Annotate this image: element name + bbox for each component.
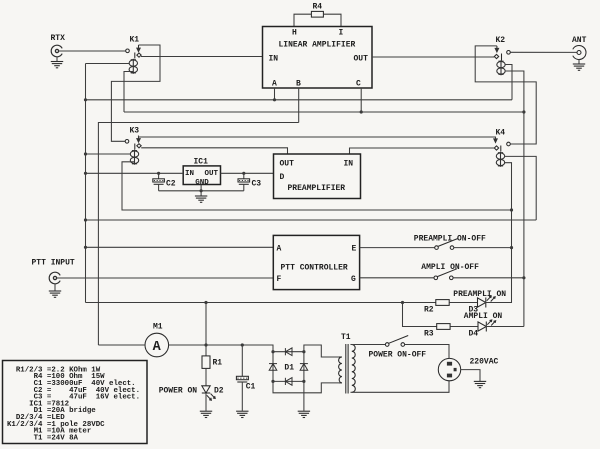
connector PTT INPUT [32, 259, 75, 284]
junction bridge BR [302, 380, 305, 383]
svg-text:D: D [280, 173, 285, 182]
ground D2 [200, 411, 212, 417]
wire K2 coil bottom to G net [505, 71, 524, 327]
relay K3 coil [130, 150, 138, 165]
wire plug to ground [461, 370, 480, 381]
junction C3 tap [242, 172, 245, 175]
svg-text:E: E [352, 245, 357, 254]
capacitor C2 [153, 173, 176, 191]
wire bus vertical [85, 64, 87, 303]
wire meter right to bridge [169, 345, 273, 352]
junction bus K3coil [84, 152, 87, 155]
switch AMPLI ON-OFF [434, 269, 457, 280]
resistor R3 [437, 324, 450, 330]
junction A line1 [273, 98, 276, 101]
wire K1 NC loop to K3 common [111, 45, 160, 141]
switch POWER ON-OFF [385, 336, 408, 347]
wire ANT stub [578, 59, 580, 63]
wire E pin to switch [360, 247, 435, 249]
svg-text:PTT INPUT: PTT INPUT [32, 259, 75, 268]
junction E-net line210 [510, 208, 513, 211]
switch PREAMPLI ON-OFF [435, 239, 458, 250]
wire pin B drop [298, 88, 300, 123]
ground IC1 [195, 196, 207, 202]
wire K1 NO to amplifier IN [141, 56, 263, 58]
wire K1 coil bottom [124, 72, 133, 113]
junction C2 tap [157, 172, 160, 175]
bridge D1 left diode [269, 364, 277, 371]
svg-text:D4: D4 [469, 330, 479, 339]
svg-text:IN: IN [269, 55, 279, 64]
relay K1 contact [126, 45, 142, 59]
wire K4 coil top to supply line [504, 156, 536, 220]
junction R3 branch [401, 301, 404, 304]
wire switch to G net [453, 277, 524, 279]
svg-text:PREAMPLI ON: PREAMPLI ON [453, 290, 506, 299]
svg-text:RTX: RTX [51, 34, 66, 43]
svg-text:R4: R4 [313, 3, 323, 12]
junction C line2 [360, 110, 363, 113]
svg-text:POWER ON-OFF: POWER ON-OFF [369, 351, 427, 360]
junction bridge BL [271, 380, 274, 383]
bridge D1 right wire [303, 352, 305, 382]
svg-text:F: F [277, 275, 282, 284]
svg-text:D2: D2 [214, 387, 224, 396]
wire T1 primary top to switch [352, 344, 386, 346]
svg-text:220VAC: 220VAC [470, 358, 499, 367]
wire K3 NO to preamp OUT [141, 148, 287, 154]
svg-text:PTT CONTROLLER: PTT CONTROLLER [281, 264, 348, 273]
svg-text:T1 =24V 8A: T1 =24V 8A [7, 434, 79, 442]
bridge D1 left wire [272, 352, 274, 382]
svg-text:D1: D1 [284, 364, 294, 373]
svg-text:B: B [296, 80, 301, 89]
parts list box [3, 361, 148, 444]
relay K2 contact [494, 46, 510, 61]
ground 220VAC [474, 381, 486, 387]
svg-text:AMPLI ON: AMPLI ON [464, 312, 503, 321]
wire bridge AC bottom to T1 [273, 381, 339, 392]
svg-text:GND: GND [195, 179, 209, 187]
resistor R4 [311, 11, 323, 17]
wire supply to K4 line [86, 219, 537, 221]
svg-text:R1: R1 [213, 359, 223, 368]
svg-text:PREAMPLIFIER: PREAMPLIFIER [288, 184, 346, 193]
svg-text:OUT: OUT [354, 55, 369, 64]
block PREAMPLIFIER [274, 154, 361, 199]
wire line2 G-drive [124, 111, 524, 113]
junction line2 G net [522, 110, 525, 113]
junction bus A [84, 246, 87, 249]
wire D4 to G net [485, 326, 524, 328]
wire PTT stub [54, 284, 56, 291]
wire R4 to I [323, 14, 341, 26]
junction E net switch [510, 246, 513, 249]
wire T1 primary bottom to plug [352, 381, 449, 393]
LED D4 [478, 320, 496, 332]
wire switch to E net [454, 247, 512, 249]
wire meter left [98, 344, 145, 346]
svg-text:LINEAR AMPLIFIER: LINEAR AMPLIFIER [279, 41, 356, 50]
svg-text:C: C [356, 80, 361, 89]
relay K2 coil [497, 60, 505, 75]
bridge D1 bottom diode [285, 378, 292, 386]
relay K3 contact [125, 136, 141, 150]
svg-text:ANT: ANT [572, 36, 587, 45]
wire K2 common to ANT [510, 51, 577, 53]
wire K2 coil top to line1 [505, 65, 512, 100]
svg-text:M1: M1 [153, 323, 163, 332]
capacitor C1 [236, 345, 255, 411]
resistor R2 [436, 300, 449, 306]
wire K2 common loop to K4 common [475, 46, 536, 144]
svg-text:IN: IN [185, 170, 194, 178]
ground PTT [49, 291, 61, 297]
wire H to R4 [294, 14, 311, 26]
svg-text:T1: T1 [341, 333, 351, 342]
wire line3 B to meter [98, 123, 298, 346]
svg-text:A: A [277, 245, 282, 254]
wire R1 column upper [205, 303, 207, 356]
wire G pin to switch [360, 277, 434, 279]
wire RTX stub [56, 57, 58, 62]
junction R1 top [204, 301, 207, 304]
wire preamp IN to K4 NO [350, 148, 495, 154]
wire bus down to rail [86, 302, 210, 304]
svg-text:A: A [272, 80, 277, 89]
svg-text:OUT: OUT [205, 170, 219, 178]
wire switch to plug [405, 345, 449, 359]
svg-text:K4: K4 [496, 129, 506, 138]
transformer T1 [339, 344, 356, 394]
wire bridge to ground [303, 381, 305, 410]
svg-text:OUT: OUT [280, 160, 295, 169]
wire R3 branch [403, 303, 437, 327]
ground ANT [573, 64, 585, 70]
wire supply bus 302 [86, 302, 436, 304]
relay K4 coil [496, 152, 504, 167]
svg-text:A: A [153, 340, 162, 355]
wire R2 to D3 [449, 302, 477, 304]
junction gnd link [200, 189, 203, 192]
svg-text:H: H [292, 29, 297, 38]
ground C1 [236, 411, 248, 417]
connector RTX [51, 34, 66, 57]
wire D3 to E net [485, 302, 512, 304]
wire pin C drop [360, 88, 362, 112]
svg-text:C2: C2 [166, 180, 176, 189]
wire pin A drop [274, 88, 276, 100]
junction bus line1 [84, 98, 87, 101]
wire RTX to K1 common [59, 50, 126, 52]
wire IC1 OUT to preamp D [221, 172, 274, 174]
bridge D1 bottom wire [273, 380, 304, 382]
wire R3 to D4 [450, 326, 478, 328]
wire amplifier OUT to K2 NO [372, 56, 494, 58]
wire PTT to F pin [57, 277, 273, 279]
svg-text:IC1: IC1 [194, 158, 209, 167]
svg-text:C1: C1 [246, 383, 256, 392]
wire K3 coil left to bus [86, 153, 132, 155]
wire C2 C3 ground link [159, 190, 244, 192]
svg-text:K1: K1 [130, 36, 140, 45]
wire IC1 GND stub [200, 185, 202, 196]
meter M1 [145, 333, 169, 357]
resistor R1 [202, 356, 210, 369]
junction R1 rail [204, 343, 207, 346]
wire K4 coil bottom to E net [504, 163, 511, 303]
connector ANT [572, 36, 587, 59]
LED D2 [202, 386, 215, 400]
ground bridge [298, 411, 310, 417]
svg-text:POWER ON: POWER ON [159, 387, 198, 396]
wire bridge AC top to T1 [304, 345, 339, 357]
relay K4 contact [493, 138, 510, 151]
svg-text:R3: R3 [424, 330, 434, 339]
regulator IC1 [183, 166, 220, 187]
svg-text:IN: IN [344, 160, 354, 169]
bridge D1 top wire [273, 351, 304, 353]
block PTT CONTROLLER [273, 235, 359, 289]
op-amp block U1 LINEAR AMPLIFIER [263, 27, 373, 89]
svg-text:R2: R2 [424, 306, 434, 315]
svg-text:AMPLI ON-OFF: AMPLI ON-OFF [421, 263, 479, 272]
svg-text:K2: K2 [496, 36, 506, 45]
bridge D1 top diode [285, 348, 292, 356]
wire bus to A pin [86, 246, 274, 248]
wire K1 coil left to bus [86, 63, 130, 65]
wire K3 coil bottom to E net [122, 162, 512, 210]
ground RTX [51, 62, 63, 68]
svg-text:G: G [351, 275, 356, 284]
bridge D1 right diode [300, 364, 308, 371]
junction C1 tap [241, 343, 244, 346]
svg-text:C3: C3 [252, 180, 262, 189]
junction bridge TL [271, 350, 274, 353]
wire R1 to D2 [205, 368, 207, 385]
relay K1 coil [129, 59, 137, 74]
wire D2 to ground [205, 393, 207, 411]
wire line1 bus [86, 99, 513, 101]
LED D3 [478, 296, 496, 308]
svg-text:K3: K3 [130, 127, 140, 136]
capacitor C3 [238, 173, 261, 191]
junction G net switch [522, 276, 525, 279]
plug 220VAC [438, 358, 460, 380]
junction bridge TR [302, 350, 305, 353]
junction bus supply220 [84, 218, 87, 221]
junction bus IC1 [84, 172, 87, 175]
wire K3 NC to K4 arm [139, 136, 496, 139]
wire bus to IC1 IN [86, 172, 184, 174]
svg-text:I: I [339, 29, 344, 38]
